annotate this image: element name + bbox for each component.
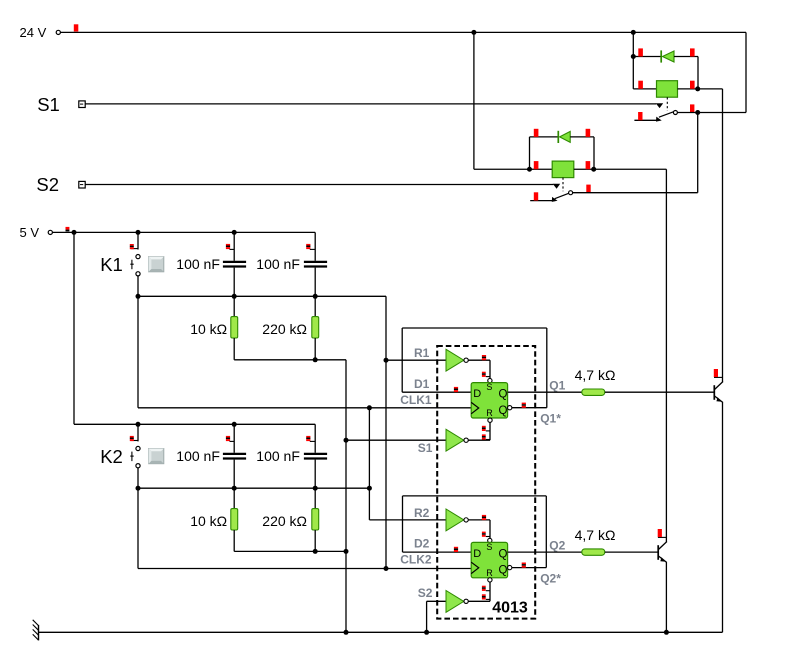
node K2-cap2 [313,486,318,491]
flip-flop U1A 4013 [471,383,507,418]
svg-text:10 kΩ: 10 kΩ [190,513,227,529]
wire relay K-A coil to Q1 collector [722,89,724,382]
svg-text:Q1: Q1 [549,378,565,392]
svg-text:5 V: 5 V [20,225,40,240]
resistor R-10k (K1) [233,296,235,316]
switch K1 [137,232,139,249]
dashed box 4013 [437,346,535,619]
wire S2 line [86,184,554,186]
node 5V-A [72,230,77,235]
svg-text:S2: S2 [418,586,433,600]
switch K2 [137,424,139,441]
button K2 [149,449,164,464]
svg-text:S: S [486,542,492,552]
wire Q2* feedback to D2 [512,567,546,569]
wire relay K-B coil to Q2 collector [665,169,667,542]
inverter S1 [446,429,464,451]
relay coil K-A [633,88,656,90]
svg-text:K1: K1 [100,254,123,275]
wire S2 inverter input [427,600,447,602]
node K1-cap1 [232,294,237,299]
node K1-res [313,357,318,362]
bubble Q2* output [508,565,512,569]
node R1-branch [384,358,389,363]
wire S1 inverter input [346,439,446,441]
ground [38,625,40,641]
pin marker D2 [454,547,458,549]
pin marker R2a [482,586,486,588]
resistor R-220k (K1) [314,296,316,316]
svg-text:D1: D1 [414,377,430,391]
node K2-bottom [136,486,141,491]
svg-text:S1: S1 [418,441,433,455]
wire R input to S1 inverter [489,422,491,440]
pin marker S2b [482,532,486,534]
node CLK2-join [384,566,389,571]
svg-text:CLK2: CLK2 [400,553,432,567]
wire switch K-B common [573,192,698,194]
inverter R1 [446,349,464,371]
wire resistor to Q1 transistor base [605,391,715,393]
node gnd-C [664,630,669,635]
wire CLK1 to K2 node to R2 [368,408,370,520]
node K2-res-gnd [344,549,349,554]
wire switch K-A common [677,112,746,114]
svg-text:D2: D2 [414,537,430,551]
resistor R4 4,7 k [582,549,605,555]
svg-text:R: R [486,408,493,418]
button K1 [149,257,164,272]
wire K2 resistors to ground rail [234,550,346,552]
wire 24V to relay K-B [473,32,475,169]
wire Q2 to resistor [508,551,582,553]
pin marker D1 [454,387,458,389]
node 5V-B [136,230,141,235]
wire Q1* feedback to D1 [512,407,547,409]
node S1inv-gnd [344,438,349,443]
pin marker R1b [482,434,486,436]
node CLK1-branch [367,405,372,410]
svg-text:Q2: Q2 [549,538,565,552]
node K2-res [313,549,318,554]
svg-text:K2: K2 [100,446,123,467]
wire K2 to CLK2 [137,488,139,568]
svg-text:100 nF: 100 nF [176,256,220,272]
diode D1 (freewheel, relay K-A) [633,56,661,58]
node diode K-A [631,54,636,59]
wire S1 line [86,103,657,105]
resistor R-220k (K2) [314,488,316,508]
wire 5V drop to K2 rail [73,232,75,424]
wire ground vertical [345,360,347,633]
wire R input to S2 inverter [489,582,491,601]
svg-text:S1: S1 [37,94,60,115]
svg-text:4,7 kΩ: 4,7 kΩ [575,367,616,383]
svg-text:220 kΩ: 220 kΩ [262,513,307,529]
wire R1 inverter to S input [468,359,490,361]
node K2-R2-branch [367,486,372,491]
svg-text:100 nF: 100 nF [256,448,300,464]
transistor Q1 (npn) [713,385,715,400]
flip-flop U1B 4013 [471,542,507,577]
pin marker Q2* [522,563,526,565]
relay coil K-B [530,168,553,170]
node K1-bottom [136,294,141,299]
svg-text:Q: Q [499,405,508,417]
svg-text:CLK1: CLK1 [400,393,432,407]
wire diode to coil K-A [697,57,699,89]
svg-text:24 V: 24 V [20,25,47,40]
node coil K-B out [591,167,596,172]
wire K2 to node [137,468,139,488]
wire Q1 to resistor [508,391,582,393]
svg-text:4,7 kΩ: 4,7 kΩ [575,527,616,543]
svg-text:S2: S2 [36,174,59,195]
node 5V-C [232,230,237,235]
capacitor C3 100 nF [233,424,235,453]
bubble S input FF1 [488,378,492,382]
bubble Q1* output [508,406,512,410]
svg-text:10 kΩ: 10 kΩ [190,321,227,337]
pin marker R2b [482,594,486,596]
pin marker S1a [482,355,486,357]
relay switch K-A [666,97,668,111]
capacitor C2 100 nF [314,232,316,260]
wire K1 to node [137,276,139,296]
svg-text:Q2*: Q2* [540,572,561,586]
svg-text:R: R [486,568,493,578]
pin marker Q1* [522,403,526,405]
node coil K-B in [527,167,532,172]
wire K1 to CLK1 [137,296,139,408]
svg-text:4013: 4013 [492,600,528,617]
pin marker S1b [482,372,486,374]
wire R2 inverter to S input [468,519,490,521]
wire K1 node line [138,295,386,297]
node 24V-B [631,30,636,35]
node gnd-A [344,630,349,635]
bubble R input FF1 [488,418,492,422]
pin marker R1a [482,426,486,428]
arrow S1 to relay K-A switch [656,103,664,108]
resistor R3 4,7 k [582,389,605,395]
inverter R2 [446,509,464,531]
svg-text:D: D [473,548,481,560]
wire 5V rail [52,231,315,233]
wire R1 input [386,359,446,361]
inverter S2 [446,591,464,613]
clock chevron FF2 [471,562,479,573]
capacitor C4 100 nF [314,424,316,453]
wire K1 node to R1 and CLK2 [385,296,387,568]
svg-text:S: S [486,382,492,392]
node switch K-A out [695,110,700,115]
wire Q1 emitter to ground [722,402,724,632]
svg-text:Q1*: Q1* [540,412,561,426]
bubble R input FF2 [488,578,492,582]
svg-text:Q: Q [499,389,508,401]
svg-text:R1: R1 [414,346,430,360]
wire resistor to Q2 transistor base [605,551,658,553]
resistor R-10k (K2) [233,488,235,508]
clock chevron FF1 [471,402,479,413]
wire Q2 emitter to ground [665,562,667,632]
wire K2 node line [138,487,369,489]
svg-text:220 kΩ: 220 kΩ [262,321,307,337]
bubble S input FF2 [488,538,492,542]
wire switch K-A to switch K-B [697,113,699,193]
node 5V-D [136,422,141,427]
node K2-cap1 [232,486,237,491]
wire 24V to relay K-A [632,32,634,89]
wire 24V right drop [745,32,747,112]
wire ground rail [39,631,723,633]
wire K1 resistors to ground rail [234,359,346,361]
svg-text:Q: Q [499,548,508,560]
svg-text:D: D [473,388,481,400]
node 5V-E [232,422,237,427]
relay switch K-B [562,178,564,192]
node 24V-A [471,30,476,35]
svg-text:R2: R2 [414,506,430,520]
node coil K-A out [695,86,700,91]
diode D2 (freewheel, relay K-B) [529,137,531,169]
capacitor C1 100 nF [233,232,235,260]
svg-text:Q: Q [499,565,508,577]
wire 24V rail [60,31,746,33]
svg-text:100 nF: 100 nF [176,448,220,464]
node K1-cap2 [313,294,318,299]
transistor Q2 (npn) [657,545,659,560]
pin marker S2a [482,515,486,517]
svg-text:100 nF: 100 nF [256,256,300,272]
node gnd-B [424,630,429,635]
arrow S2 to relay K-B switch [553,184,561,189]
